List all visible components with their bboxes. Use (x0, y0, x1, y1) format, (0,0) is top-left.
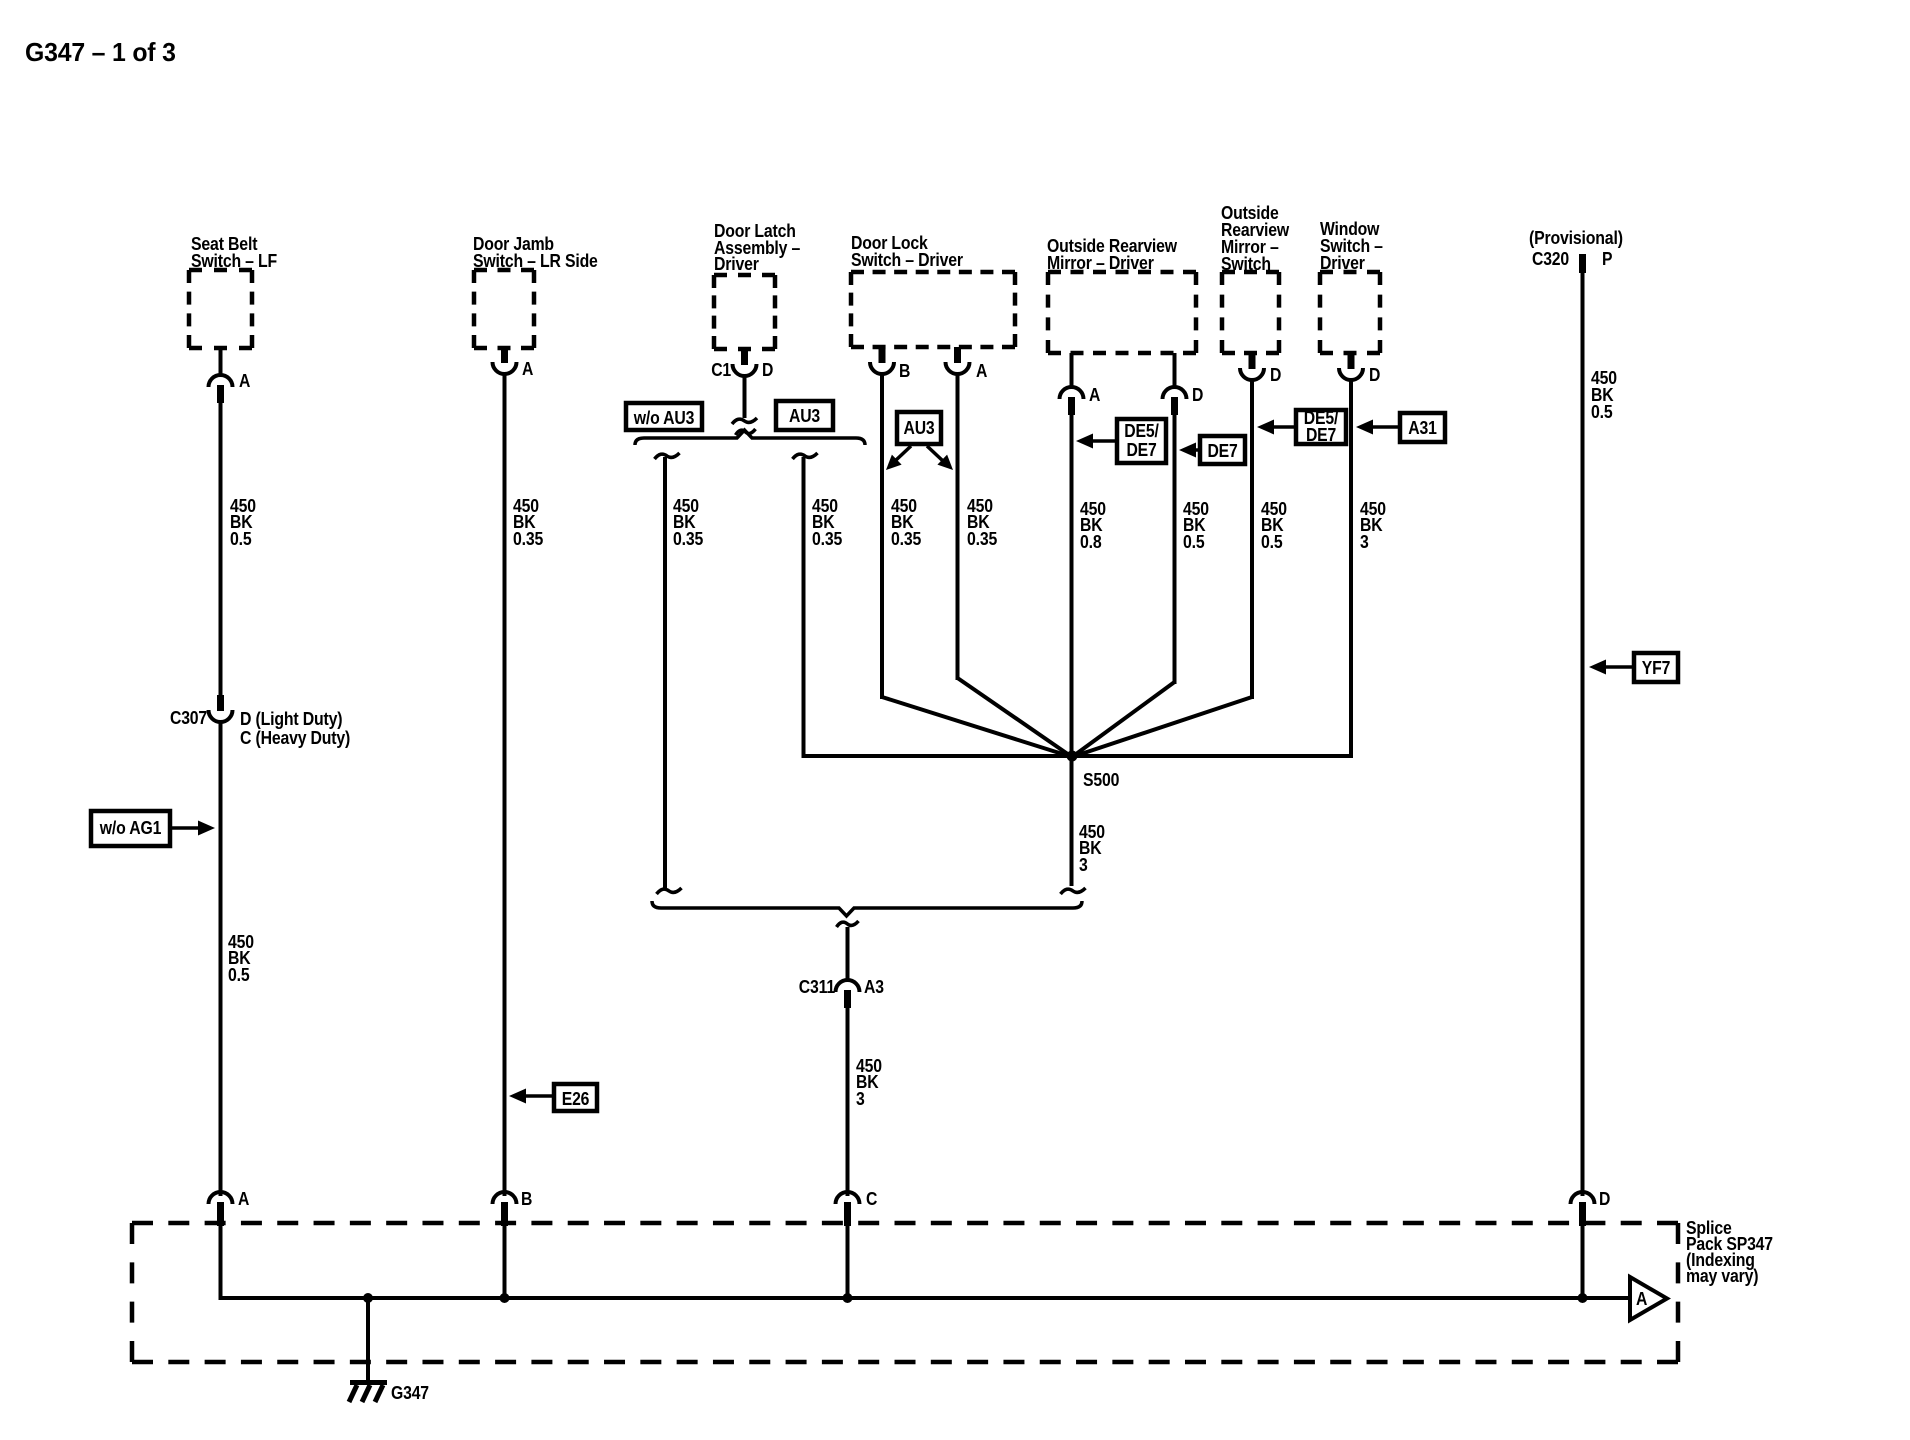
option box DE5/DE7 at mirror switch (1296, 410, 1346, 444)
diagonal wire door lock A to splice S500 (958, 678, 1073, 757)
svg-text:G347 – 1 of 3: G347 – 1 of 3 (25, 37, 176, 67)
wire from bus to ground G347 (366, 1298, 370, 1384)
wire 450 BK 0.35 door jamb (503, 372, 507, 1196)
connector pin D of Outside Rearview Mirror - Switch (1249, 353, 1256, 369)
component Window Switch - Driver box (1320, 270, 1380, 275)
svg-text:3: 3 (1079, 855, 1088, 875)
svg-text:(Provisional): (Provisional) (1529, 228, 1623, 248)
wire horizontal bus into splice S500 (804, 754, 1352, 758)
svg-text:Switch – LR Side: Switch – LR Side (473, 251, 598, 271)
svg-text:0.35: 0.35 (967, 529, 997, 549)
svg-text:D: D (1270, 365, 1281, 385)
svg-text:w/o AG1: w/o AG1 (99, 818, 161, 838)
connector C307 (217, 695, 224, 711)
option box AU3 at door latch (776, 401, 833, 430)
arrow from DE5/DE7 to mirror switch wire (1269, 425, 1296, 429)
svg-text:D: D (762, 360, 773, 380)
connector pin B of Door Lock Switch (879, 347, 886, 363)
arrow from DE7 to mirror driver pin D wire (1191, 448, 1200, 452)
wire into splice pack from pin A (219, 1224, 223, 1298)
wire break mark bottom of S500 wire (1061, 888, 1086, 894)
component Door Jamb Switch - LR Side box (474, 268, 534, 273)
svg-text:A: A (239, 371, 250, 391)
svg-text:Switch – LF: Switch – LF (191, 251, 277, 271)
junction node C wire on bus (843, 1293, 853, 1303)
svg-text:A: A (1089, 385, 1100, 405)
arrow from YF7 to C320 wire (1601, 665, 1634, 669)
ground bus inside splice pack (219, 1296, 1633, 1300)
diagonal wire door lock B to splice S500 (882, 697, 1072, 757)
wire break mark above option brace (736, 429, 756, 435)
component Door Lock Switch - Driver box (851, 270, 1015, 275)
connector pin A of Door Jamb Switch (501, 347, 508, 363)
option box YF7 (1634, 653, 1678, 682)
svg-text:0.5: 0.5 (230, 529, 252, 549)
svg-text:C320: C320 (1532, 249, 1569, 269)
junction node ground tap (363, 1293, 373, 1303)
option box w/o AU3 (626, 403, 702, 430)
arrow from DE5/DE7 to mirror driver pin A wire (1088, 439, 1117, 443)
wire from lower brace to connector C311 (846, 927, 850, 982)
component Door Latch Assembly - Driver box (714, 273, 775, 278)
svg-text:G347: G347 (391, 1383, 429, 1403)
wire 450 BK 3 window switch (1349, 378, 1353, 758)
svg-text:A: A (1636, 1289, 1647, 1309)
wire AU3 branch 450 BK 0.35 (802, 457, 806, 758)
series terminal A triangle (1630, 1277, 1667, 1320)
wire break mark bottom of w/o AU3 branch (657, 888, 682, 894)
lower option brace joining branches to C311 lead (652, 901, 1082, 916)
svg-text:A31: A31 (1408, 418, 1437, 438)
svg-text:D (Light Duty): D (Light Duty) (240, 709, 343, 729)
svg-text:may vary): may vary) (1686, 1266, 1758, 1286)
svg-text:B: B (899, 361, 910, 381)
connector pin A of Seat Belt Switch (209, 375, 233, 387)
connector pin D of Outside Rearview Mirror - Driver (1163, 387, 1187, 399)
svg-text:DE7: DE7 (1207, 441, 1237, 461)
wire 450 BK 0.5 mirror switch (1250, 378, 1254, 699)
junction node D wire on bus (1578, 1293, 1588, 1303)
svg-text:C: C (866, 1189, 877, 1209)
wire break mark top of w/o AU3 branch (655, 453, 680, 459)
svg-text:S500: S500 (1083, 770, 1119, 790)
wire 450 BK 3 from C311 to splice pack (846, 1006, 850, 1196)
svg-text:A: A (522, 359, 533, 379)
svg-text:YF7: YF7 (1642, 658, 1671, 678)
splice pack SP347 dashed box (132, 1221, 1678, 1226)
svg-text:0.35: 0.35 (891, 529, 921, 549)
diagonal wire mirror switch to splice S500 (1072, 697, 1252, 757)
option box E26 (554, 1084, 597, 1111)
wire into splice pack from pin D (1581, 1224, 1585, 1298)
wire from Seat Belt Switch to connector A (219, 346, 223, 377)
svg-text:A3: A3 (864, 977, 884, 997)
svg-text:C311: C311 (799, 977, 835, 997)
svg-text:AU3: AU3 (789, 406, 820, 426)
option box DE5/DE7 at mirror driver (1117, 419, 1166, 463)
svg-text:DE5/: DE5/ (1124, 421, 1159, 441)
wire 450 BK 0.5 mirror driver pin D (1173, 413, 1177, 684)
svg-text:0.35: 0.35 (673, 529, 703, 549)
arrow from AU3 box to pin B wire (895, 446, 911, 461)
connector C311 pin A3 (836, 980, 860, 992)
wire w/o AU3 branch 450 BK 0.35 (663, 457, 667, 888)
connector pin B at Splice Pack SP347 (493, 1192, 517, 1204)
svg-text:A: A (238, 1189, 249, 1209)
component Outside Rearview Mirror - Driver box (1048, 270, 1196, 275)
connector pin C at Splice Pack SP347 (836, 1192, 860, 1204)
connector pin D at Splice Pack SP347 (1571, 1192, 1595, 1204)
svg-text:P: P (1602, 249, 1612, 269)
option box DE7 at mirror driver (1200, 436, 1245, 464)
wire 450 BK 0.5 provisional C320 (1581, 271, 1585, 1196)
wire into splice pack from pin C (846, 1224, 850, 1298)
svg-text:Switch – Driver: Switch – Driver (851, 250, 963, 270)
option box AU3 at door lock (897, 412, 941, 444)
svg-text:B: B (521, 1189, 532, 1209)
arrow from E26 to wire (521, 1094, 554, 1098)
connector pin A of Door Lock Switch (954, 347, 961, 363)
connector C1 pin D of Door Latch Assembly (741, 349, 748, 365)
svg-text:0.5: 0.5 (1261, 532, 1283, 552)
svg-text:E26: E26 (562, 1089, 590, 1109)
connector pin D of Window Switch - Driver (1348, 353, 1355, 369)
diagonal wire mirror driver D to splice S500 (1072, 682, 1175, 757)
connector C320 terminal stub (1579, 254, 1586, 273)
wire 450 BK 0.35 from door lock pin A (956, 372, 960, 680)
svg-text:3: 3 (856, 1089, 865, 1109)
svg-text:0.8: 0.8 (1080, 532, 1102, 552)
svg-text:0.5: 0.5 (1591, 402, 1613, 422)
connector pin A of Outside Rearview Mirror - Driver (1060, 387, 1084, 399)
wire from mirror driver box to pin D (1173, 353, 1177, 389)
wire from door latch pin D to option split (743, 374, 747, 418)
arrow from A31 to window switch wire (1368, 425, 1400, 429)
wire 450 BK 0.5 seat belt lower segment (219, 720, 223, 1196)
wire break mark top of AU3 branch (793, 453, 818, 459)
wire break mark at latch wire end (732, 418, 757, 424)
svg-text:C (Heavy Duty): C (Heavy Duty) (240, 728, 350, 748)
wire into splice pack from pin B (503, 1224, 507, 1298)
svg-text:0.35: 0.35 (513, 529, 543, 549)
option box A31 (1400, 413, 1445, 442)
wire 450 BK 0.8 mirror driver pin A down through S500 (1070, 413, 1074, 886)
svg-text:D: D (1369, 365, 1380, 385)
svg-text:A: A (976, 361, 987, 381)
svg-text:AU3: AU3 (904, 418, 935, 438)
connector pin A at Splice Pack SP347 (209, 1192, 233, 1204)
arrow from AU3 box to pin A wire (927, 446, 943, 461)
wire break mark below lower brace (837, 921, 859, 927)
option brace joining w/o AU3 and AU3 branches (635, 430, 865, 445)
svg-text:C1: C1 (711, 360, 731, 380)
svg-text:D: D (1192, 385, 1203, 405)
svg-text:3: 3 (1360, 532, 1369, 552)
option box w/o AG1 (91, 811, 170, 846)
arrow from w/o AG1 to wire (170, 826, 203, 830)
wire 450 BK 0.5 seat belt upper segment (219, 401, 223, 697)
junction node B wire on bus (500, 1293, 510, 1303)
wire from mirror driver box to pin A (1070, 353, 1074, 389)
svg-text:C307: C307 (170, 708, 207, 728)
wire 450 BK 0.35 from door lock pin B (880, 372, 884, 699)
splice S500 (1067, 751, 1078, 762)
svg-text:Driver: Driver (714, 254, 759, 274)
ground G347 symbol (350, 1380, 387, 1385)
svg-text:0.5: 0.5 (1183, 532, 1205, 552)
svg-text:w/o AU3: w/o AU3 (633, 408, 695, 428)
svg-text:DE7: DE7 (1126, 440, 1156, 460)
svg-text:0.5: 0.5 (228, 965, 250, 985)
svg-text:DE7: DE7 (1306, 425, 1336, 445)
svg-text:D: D (1599, 1189, 1610, 1209)
svg-text:0.35: 0.35 (812, 529, 842, 549)
component Seat Belt Switch - LF box (189, 268, 252, 273)
component Outside Rearview Mirror - Switch box (1222, 270, 1279, 275)
